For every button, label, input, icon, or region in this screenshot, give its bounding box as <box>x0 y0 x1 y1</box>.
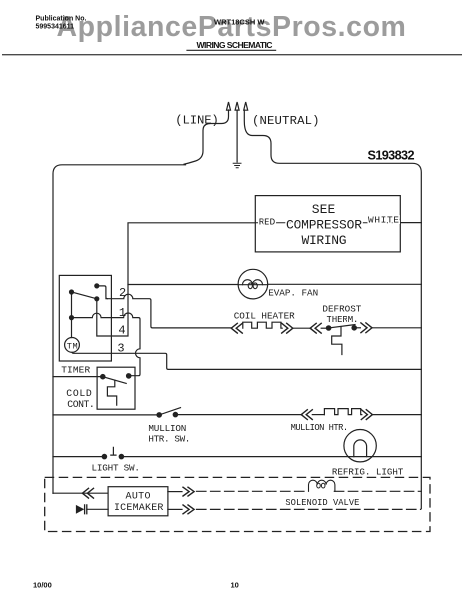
dashed wire icemaker lower to bus bottom <box>197 508 421 510</box>
cold control right contact dot <box>127 374 131 378</box>
mullion heater left chevrons <box>301 410 312 420</box>
evap fan motor loops <box>243 280 263 285</box>
light switch plunger <box>111 447 116 455</box>
icemaker receptacle bars <box>85 505 87 514</box>
coil heater right chevrons <box>282 323 293 333</box>
icemaker plug connector <box>77 506 84 513</box>
icemaker dashed enclosure <box>45 477 430 531</box>
wire mullion heater to right bus <box>372 414 421 416</box>
refrigerator light circle <box>344 430 376 462</box>
svg-text:AUTO: AUTO <box>126 491 151 502</box>
svg-text:TIMER: TIMER <box>61 365 90 376</box>
svg-text:S193832: S193832 <box>368 148 415 162</box>
svg-text:HTR. SW.: HTR. SW. <box>148 433 190 444</box>
plug prong LINE arrowhead <box>227 102 231 110</box>
wire icemaker upper right <box>168 491 182 493</box>
svg-text:SOLENOID VALVE: SOLENOID VALVE <box>285 498 359 508</box>
svg-text:MULLION: MULLION <box>148 423 186 434</box>
dashed wire to solenoid valve <box>197 490 306 492</box>
wire through evap fan circle <box>238 284 268 286</box>
wire terminal 2 row with hop over vertical, down to coil heater row <box>106 294 231 328</box>
wire compressor row left to timer terminal 4 vertical <box>97 223 256 336</box>
mullion switch right dot <box>173 412 177 416</box>
refrigerator light filament <box>354 440 367 457</box>
timer box <box>59 275 111 361</box>
wire timer pivot down to common node <box>71 292 73 318</box>
svg-text:MULLION HTR.: MULLION HTR. <box>291 423 349 433</box>
wire icemaker lower right <box>168 508 182 510</box>
title underline <box>186 49 276 51</box>
wire evap fan row right to bus <box>268 283 422 285</box>
svg-text:COLD: COLD <box>66 388 92 399</box>
svg-text:CONT.: CONT. <box>67 399 95 410</box>
dashed wire solenoid to right bus <box>334 490 421 492</box>
svg-text:1: 1 <box>119 306 126 320</box>
wire light switch row <box>53 456 421 458</box>
timer motor TM circle <box>65 338 80 353</box>
svg-text:WRT18CSH W: WRT18CSH W <box>214 18 265 27</box>
wire chevron to defrost contact <box>321 327 328 329</box>
cold control box <box>97 367 135 409</box>
svg-text:RED: RED <box>259 217 276 228</box>
svg-text:AppliancePartsPros.com: AppliancePartsPros.com <box>57 11 406 43</box>
icemaker left chevrons <box>82 488 93 498</box>
timer contact dot terminal 2 <box>95 284 99 288</box>
svg-text:(NEUTRAL): (NEUTRAL) <box>252 114 320 128</box>
svg-text:LIGHT SW.: LIGHT SW. <box>92 463 141 474</box>
coil heater element <box>243 322 282 328</box>
plug prong ground arrowhead <box>235 102 239 110</box>
svg-text:TM: TM <box>67 341 78 351</box>
defrost therm blade <box>329 325 355 328</box>
auto icemaker box <box>108 487 168 516</box>
svg-text:REFRIG. LIGHT: REFRIG. LIGHT <box>332 467 404 478</box>
wire connector to icemaker box <box>87 508 108 510</box>
solenoid valve coil <box>309 480 335 491</box>
wire terminal 1 row with hops, down to cold control <box>72 313 141 376</box>
svg-text:10/00: 10/00 <box>33 581 52 590</box>
timer pivot dot <box>70 290 74 294</box>
timer switch blade <box>72 292 97 299</box>
icemaker lower right chevrons <box>183 505 194 514</box>
coil heater left chevrons <box>231 323 242 333</box>
wire timer motor to common node <box>71 318 73 338</box>
svg-text:2: 2 <box>119 286 126 300</box>
timer blade tip dot (terminal 4 contact) <box>95 297 99 301</box>
cold control left contact dot <box>101 375 105 379</box>
ground symbol <box>233 163 241 168</box>
svg-text:(LINE): (LINE) <box>175 113 219 127</box>
wire neutral prong to right bus <box>244 110 421 509</box>
wire ground prong stem <box>236 110 238 162</box>
wire defrost row to right bus <box>372 327 421 329</box>
wire terminal 3 row from TM to step-down and right bus <box>72 352 421 370</box>
timer common node dot <box>70 316 74 320</box>
wire chevron to mullion heater <box>312 414 324 416</box>
mullion switch blade <box>159 408 180 415</box>
svg-text:WIRING SCHEMATIC: WIRING SCHEMATIC <box>197 40 273 50</box>
wire outer left edge top <box>53 165 186 494</box>
evap fan circle <box>238 269 268 299</box>
wire left bus down to icemaker <box>53 492 108 494</box>
icemaker upper right chevrons <box>183 487 194 496</box>
defrost therm left contact dot <box>326 326 330 330</box>
mullion switch left dot <box>157 413 161 417</box>
svg-text:SEE: SEE <box>312 202 336 217</box>
mullion heater element <box>324 409 361 415</box>
wire compressor row right (WHITE) to right bus <box>400 222 421 224</box>
wire timer contact A to terminal 2 lead <box>97 286 108 299</box>
svg-text:ICEMAKER: ICEMAKER <box>114 503 164 514</box>
svg-text:10: 10 <box>231 581 239 590</box>
cold control switch blade <box>103 377 126 384</box>
wire left bus to cold control <box>53 376 103 378</box>
svg-text:4: 4 <box>118 324 125 338</box>
light switch left dot <box>102 454 106 458</box>
wire left bus to mullion switch <box>53 414 159 416</box>
svg-text:WIRING: WIRING <box>302 233 347 248</box>
wire coil heater to defrost therm <box>293 327 311 329</box>
light switch right dot <box>119 454 123 458</box>
defrost therm left chevrons <box>310 323 321 333</box>
wire evap fan row left <box>128 284 238 286</box>
svg-text:5995341611: 5995341611 <box>36 24 75 31</box>
svg-text:COIL HEATER: COIL HEATER <box>234 311 295 322</box>
defrost therm capillary <box>332 327 342 355</box>
svg-text:THERM.: THERM. <box>327 314 359 325</box>
header rule <box>2 54 462 56</box>
wire line prong to left bus <box>184 110 229 164</box>
wire mullion switch to heater chevrons <box>175 414 302 416</box>
svg-text:DEFROST: DEFROST <box>322 303 361 314</box>
svg-text:Publication No.: Publication No. <box>36 16 87 23</box>
defrost therm right chevrons <box>361 323 372 333</box>
wire inside compressor box <box>255 222 400 224</box>
mullion heater right chevrons <box>361 410 372 420</box>
svg-text:WHITE: WHITE <box>368 215 399 226</box>
compressor box <box>255 196 400 252</box>
svg-text:COMPRESSOR: COMPRESSOR <box>286 218 362 233</box>
cold control capillary element <box>107 380 116 405</box>
plug prong NEUTRAL arrowhead <box>244 102 248 110</box>
svg-text:3: 3 <box>117 342 124 356</box>
svg-text:EVAP. FAN: EVAP. FAN <box>268 287 318 298</box>
wire defrost contact to chevron <box>354 327 360 329</box>
defrost therm right contact dot <box>352 326 356 330</box>
